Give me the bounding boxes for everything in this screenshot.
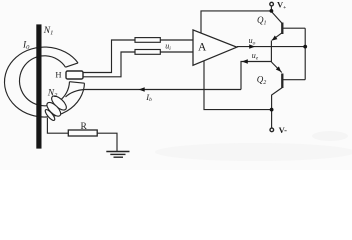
primary conductor bar [36, 24, 41, 148]
svg-text:V-: V- [279, 125, 288, 135]
resistor (input bottom) [135, 50, 160, 55]
junction dot u0/base line [303, 45, 307, 49]
wire: resistors to op-amp inputs [160, 39, 193, 41]
Hall element H [66, 71, 83, 79]
wire: amp V- supply pin and bottom rail [204, 61, 272, 110]
wire: ue tap and feedback down leg [241, 62, 271, 90]
resistor R [68, 130, 97, 136]
toroidal core (magnetic ring) [5, 47, 85, 117]
wire: u0 output from amp to bases line [237, 46, 305, 48]
V+ terminal [270, 2, 274, 6]
compensation winding N2 [44, 90, 85, 122]
ground [106, 152, 129, 158]
wire: V- drop [271, 110, 273, 129]
svg-text:A: A [198, 42, 207, 54]
svg-text:H: H [55, 70, 61, 80]
arrow ue [242, 59, 248, 63]
wire: V+ terminal drop [270, 6, 272, 12]
wire: emitters vertical [270, 41, 272, 63]
arrow u0 [249, 44, 255, 48]
resistor (input top) [135, 38, 160, 43]
wire: amp V+ supply pin and top rail [201, 11, 271, 33]
wire: hall lead 1 [83, 40, 135, 73]
junction dot top rail [270, 9, 274, 13]
transistor Q1 (NPN) [271, 12, 305, 41]
wire: hall lead 2 [83, 52, 135, 77]
svg-text:R: R [81, 122, 88, 132]
transistor Q2 (PNP) [271, 62, 305, 110]
V- terminal [270, 128, 274, 132]
wire: R to ground [97, 133, 117, 151]
op-amp A triangle [193, 30, 237, 65]
wire: winding to R [47, 118, 68, 133]
arrow Ib [139, 87, 145, 91]
junction dot bottom rail [270, 108, 274, 112]
wire: Ib feedback line [85, 89, 241, 91]
wire: right vertical connecting bases [304, 28, 306, 79]
